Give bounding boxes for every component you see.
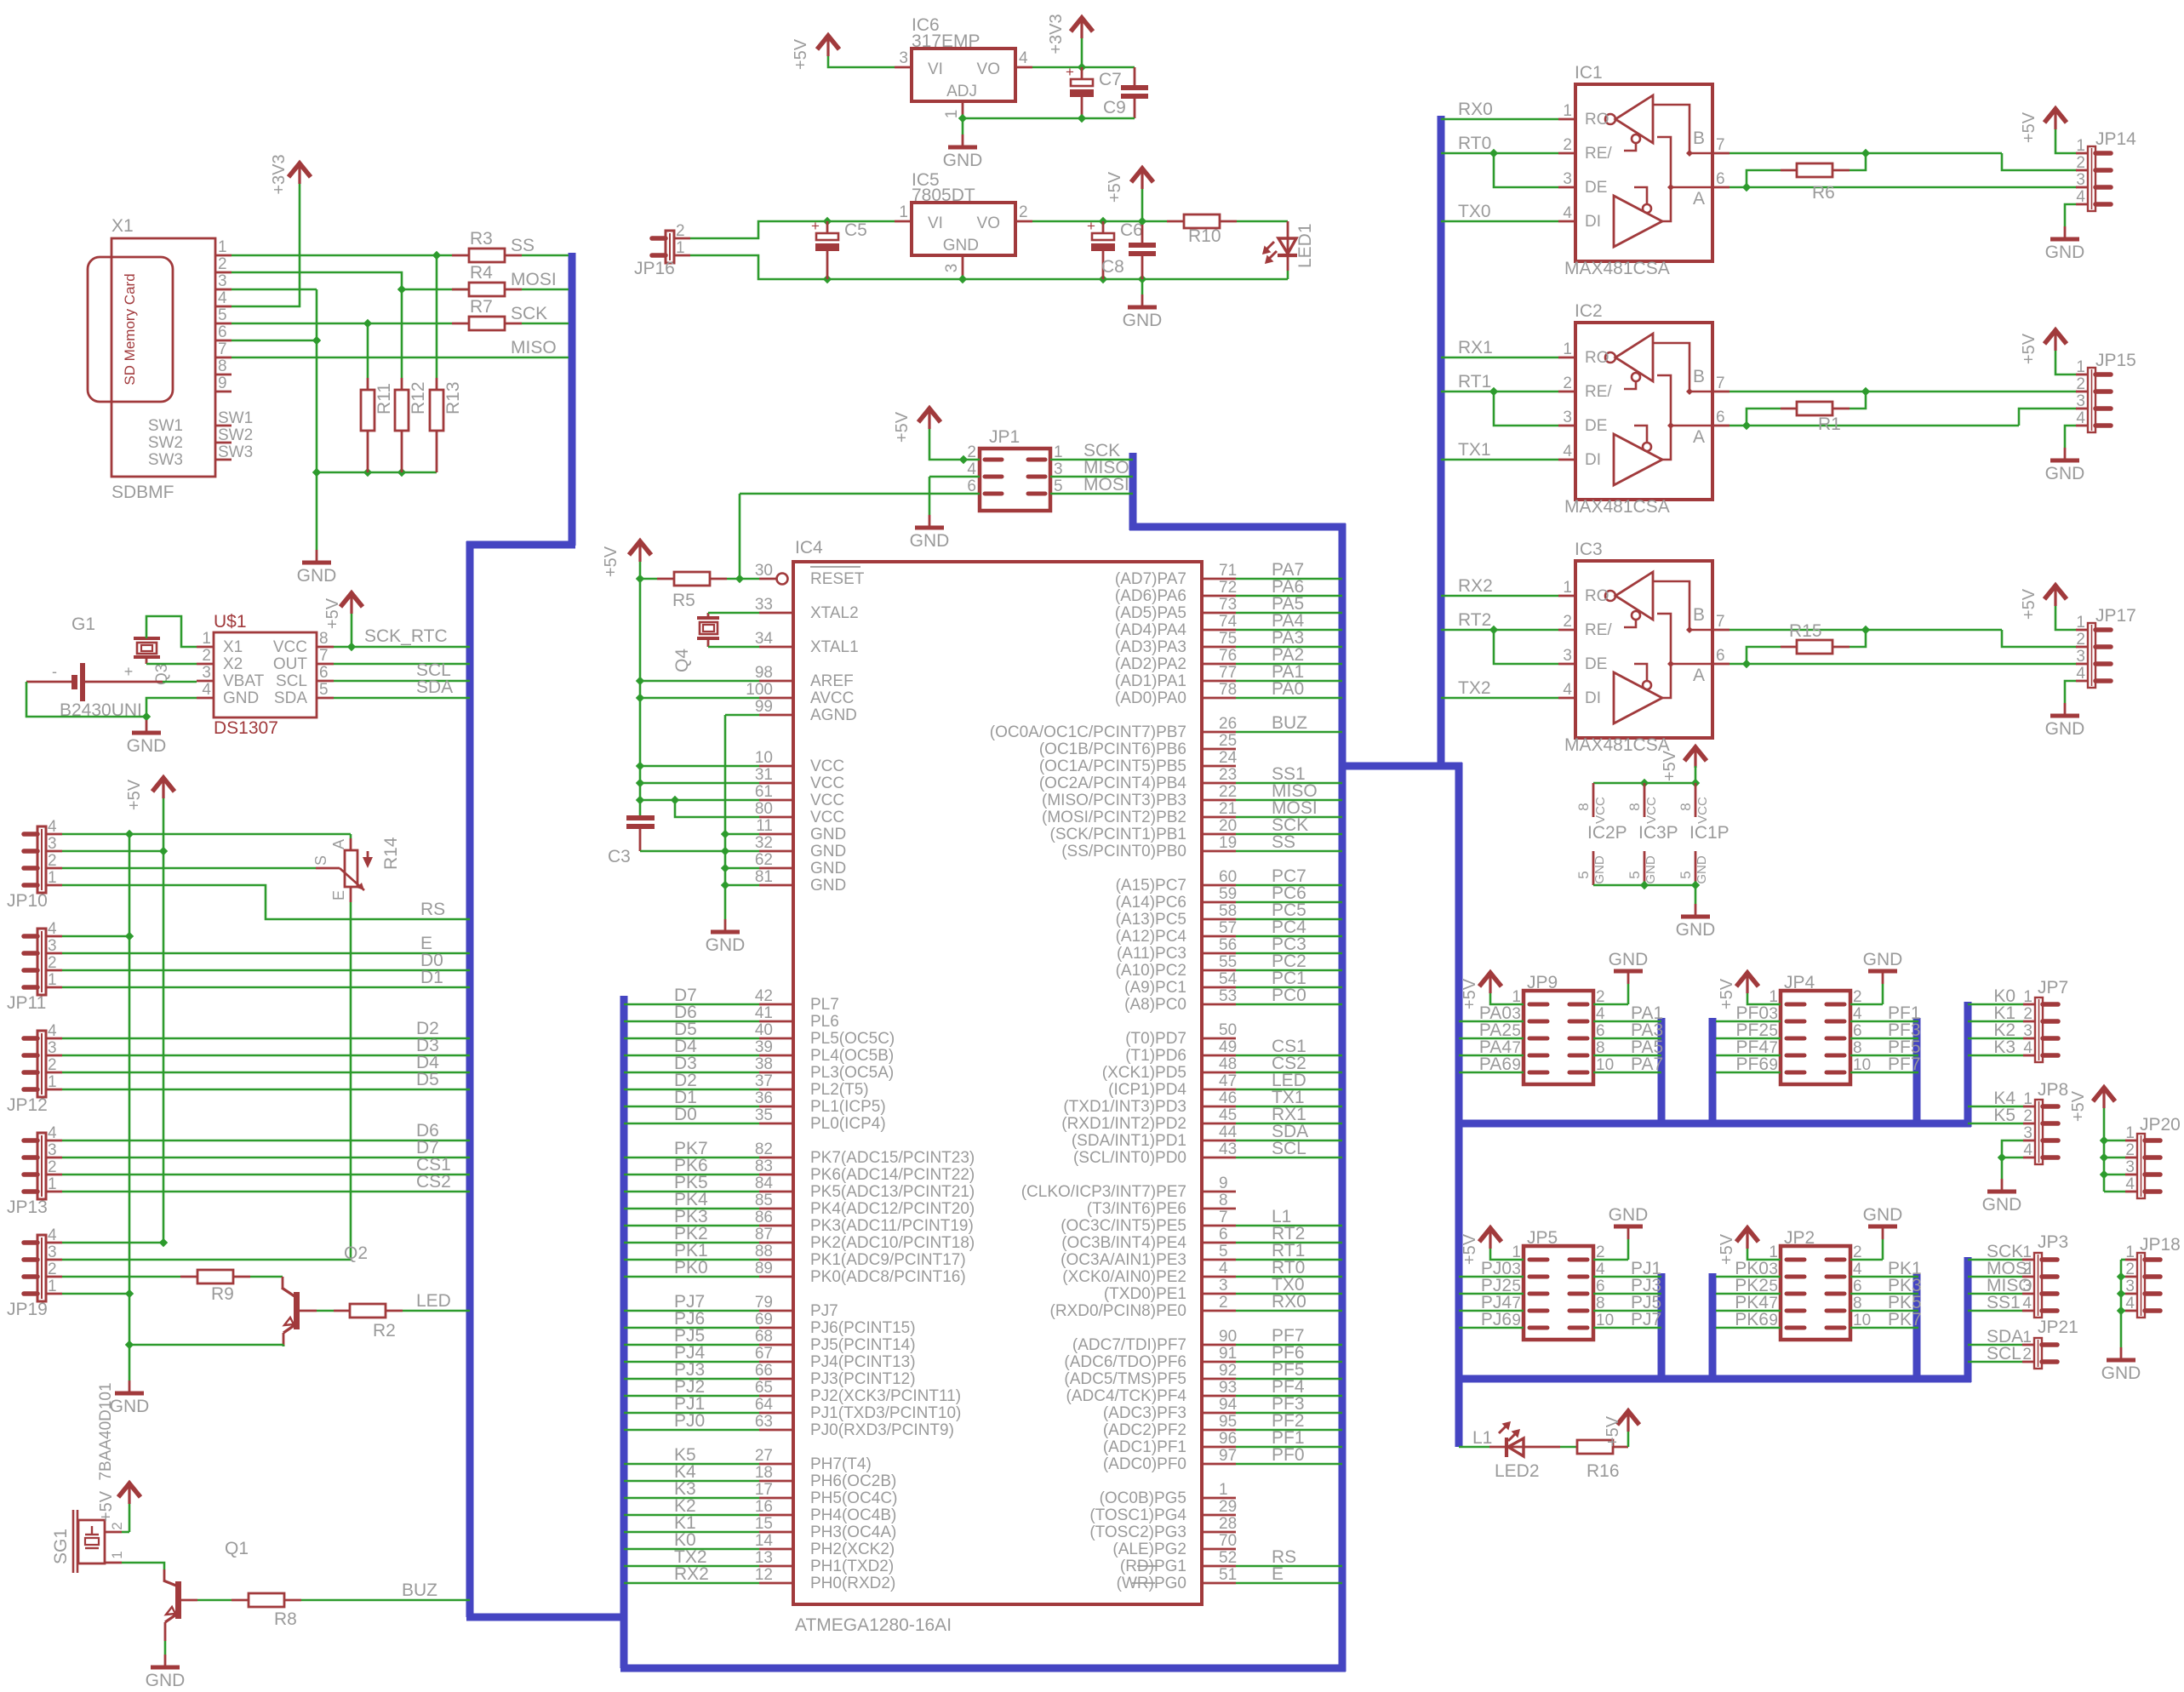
svg-text:3: 3 bbox=[48, 835, 57, 853]
wire K2 to JP7 bbox=[1968, 1037, 2023, 1040]
svg-text:7: 7 bbox=[1716, 613, 1725, 631]
wire PJ6 to bus bbox=[624, 1327, 759, 1329]
svg-text:1: 1 bbox=[899, 203, 908, 221]
svg-text:6: 6 bbox=[1716, 409, 1725, 426]
svg-text:5: 5 bbox=[1575, 871, 1592, 878]
wire PK5 to bus bbox=[624, 1191, 759, 1193]
wire battery + to VBAT bbox=[163, 681, 197, 683]
svg-text:JP20: JP20 bbox=[2140, 1115, 2181, 1135]
svg-text:SCL: SCL bbox=[276, 672, 307, 690]
svg-text:SW1: SW1 bbox=[218, 409, 253, 427]
svg-text:VCC: VCC bbox=[1644, 797, 1659, 824]
svg-text:Q1: Q1 bbox=[225, 1539, 249, 1558]
bus V3 (SD SPI bus right of resistors) bbox=[569, 253, 576, 546]
svg-text:(ADC0)PF0: (ADC0)PF0 bbox=[1103, 1455, 1186, 1473]
svg-text:23: 23 bbox=[1219, 766, 1237, 784]
svg-text:2: 2 bbox=[2125, 1141, 2135, 1159]
svg-text:A: A bbox=[330, 839, 347, 849]
wire PJ4 to bus bbox=[624, 1361, 759, 1363]
svg-text:94: 94 bbox=[1219, 1396, 1238, 1414]
wire RT0 to DE bbox=[1494, 153, 1558, 187]
svg-text:1: 1 bbox=[48, 1175, 57, 1193]
svg-text:MAX481CSA: MAX481CSA bbox=[1564, 259, 1670, 278]
svg-text:51: 51 bbox=[1219, 1566, 1237, 1584]
svg-text:GND: GND bbox=[2045, 464, 2085, 483]
svg-text:4: 4 bbox=[2022, 1295, 2032, 1312]
svg-text:VCC: VCC bbox=[1593, 797, 1608, 824]
connector JP8 bbox=[2035, 1100, 2043, 1164]
wire JP10 pin3 +5V bbox=[62, 850, 163, 853]
wire RX2 bbox=[1441, 595, 1558, 597]
svg-text:+5V: +5V bbox=[2020, 111, 2038, 143]
ground under Q1 bbox=[164, 1655, 167, 1667]
wire RT1 to DE bbox=[1494, 392, 1558, 426]
svg-text:GND: GND bbox=[1982, 1195, 2022, 1215]
resistor R5 bbox=[640, 578, 657, 580]
svg-text:LED1: LED1 bbox=[1295, 223, 1315, 268]
wire PF1 from JP4 bbox=[1850, 1020, 1918, 1023]
wire +5V to JP20 pins bbox=[2103, 1108, 2106, 1192]
wire PA1 to right bus bbox=[1202, 680, 1236, 683]
wire PC5 to right bus bbox=[1202, 918, 1236, 921]
connector JP11 bbox=[37, 929, 46, 995]
svg-text:4: 4 bbox=[2125, 1175, 2135, 1193]
wire JP18 pins to gnd bbox=[2120, 1260, 2123, 1347]
svg-text:PJ7: PJ7 bbox=[1631, 1310, 1661, 1329]
wire D5 bbox=[62, 1089, 470, 1091]
svg-text:MAX481CSA: MAX481CSA bbox=[1564, 497, 1670, 517]
svg-text:VO: VO bbox=[977, 214, 1000, 232]
wire PK4 to JP2 bbox=[1716, 1310, 1781, 1312]
connector JP19 bbox=[37, 1235, 46, 1301]
wire PK5 from JP2 bbox=[1850, 1310, 1918, 1312]
svg-text:PL0(ICP4): PL0(ICP4) bbox=[810, 1115, 886, 1133]
power +5V at JP5 bbox=[1479, 1228, 1501, 1242]
svg-text:JP8: JP8 bbox=[2038, 1080, 2068, 1100]
wire A pin of IC3 bbox=[1729, 663, 2077, 666]
svg-text:98: 98 bbox=[755, 664, 773, 682]
svg-text:3: 3 bbox=[2125, 1278, 2135, 1295]
svg-text:1: 1 bbox=[2125, 1124, 2135, 1142]
svg-text:RX2: RX2 bbox=[1458, 576, 1493, 596]
svg-text:Q4: Q4 bbox=[672, 649, 692, 672]
svg-text:SW3: SW3 bbox=[218, 443, 253, 461]
wire SCL to right bus bbox=[1202, 1157, 1236, 1159]
bus V1 (left of IC4) bbox=[620, 996, 628, 1668]
svg-text:83: 83 bbox=[755, 1158, 773, 1175]
wire IC6 ADJ / gnd link bbox=[958, 114, 967, 123]
svg-text:+: + bbox=[811, 218, 820, 234]
svg-text:(A8)PC0: (A8)PC0 bbox=[1124, 996, 1186, 1014]
svg-text:SDA: SDA bbox=[274, 689, 307, 707]
svg-text:4: 4 bbox=[1563, 443, 1572, 460]
wire SDA to right bus bbox=[1202, 1140, 1236, 1142]
wire TX2 bbox=[1441, 697, 1558, 700]
svg-text:Q2: Q2 bbox=[344, 1243, 368, 1263]
wire RT2 to right bus bbox=[1202, 1242, 1236, 1244]
wire PK6 to JP2 bbox=[1716, 1327, 1781, 1329]
svg-text:89: 89 bbox=[755, 1260, 773, 1278]
svg-text:B: B bbox=[1693, 605, 1705, 625]
power +5V at ICxP bbox=[1684, 747, 1707, 761]
svg-text:+5V: +5V bbox=[2020, 588, 2038, 620]
wire PC6 to right bus bbox=[1202, 901, 1236, 904]
RS485 transceiver IC2 MAX481CSA bbox=[1575, 323, 1712, 500]
wire SD pin3 to GND rail bbox=[232, 289, 317, 291]
svg-text:R5: R5 bbox=[672, 591, 695, 610]
svg-text:GND: GND bbox=[810, 877, 846, 895]
svg-text:+: + bbox=[1066, 64, 1074, 80]
wire PJ0 to bus bbox=[624, 1429, 759, 1432]
svg-text:22: 22 bbox=[1219, 783, 1237, 801]
svg-text:IC1: IC1 bbox=[1575, 63, 1603, 83]
wire D4 bbox=[62, 1072, 470, 1074]
svg-text:TX0: TX0 bbox=[1458, 202, 1491, 221]
resistor R13 bbox=[436, 255, 438, 378]
svg-text:(OC3B/INT4)PE4: (OC3B/INT4)PE4 bbox=[1061, 1234, 1186, 1252]
wire PJ7 to bus bbox=[624, 1310, 759, 1312]
wire +5V to JP2 pin1 bbox=[1747, 1249, 1781, 1260]
svg-text:1: 1 bbox=[2023, 988, 2032, 1006]
bus left of JP2 bbox=[1709, 1273, 1717, 1382]
connector JP20 bbox=[2137, 1134, 2145, 1198]
svg-text:1: 1 bbox=[2076, 358, 2085, 376]
svg-text:+5V: +5V bbox=[1718, 978, 1736, 1009]
svg-text:82: 82 bbox=[755, 1140, 773, 1158]
svg-text:2: 2 bbox=[218, 255, 227, 273]
resistor R15 bbox=[1850, 630, 1866, 647]
power +3V3 output bbox=[1071, 18, 1093, 31]
svg-text:SCL: SCL bbox=[1272, 1139, 1306, 1158]
wire JP16 pin1 to gnd rail bbox=[690, 255, 1288, 279]
svg-text:3: 3 bbox=[2023, 1124, 2032, 1142]
wire TX0 to right bus bbox=[1202, 1293, 1236, 1295]
svg-text:PL5(OC5C): PL5(OC5C) bbox=[810, 1030, 895, 1048]
wire SD pin6 bbox=[232, 340, 317, 342]
svg-text:JP2: JP2 bbox=[1784, 1228, 1815, 1248]
wire JP15 pin4 to gnd bbox=[2065, 426, 2076, 448]
RS485 transceiver IC3 MAX481CSA bbox=[1575, 561, 1712, 738]
svg-text:JP11: JP11 bbox=[7, 993, 46, 1013]
svg-text:GND: GND bbox=[810, 860, 846, 877]
svg-text:3: 3 bbox=[202, 664, 211, 682]
svg-text:+5V: +5V bbox=[1461, 978, 1479, 1009]
pin stub (T3/INT6)PE6 bbox=[1202, 1208, 1236, 1210]
svg-text:RT0: RT0 bbox=[1458, 134, 1491, 153]
wire R14 E down to JP19 pin3 bbox=[62, 902, 351, 1260]
svg-text:VI: VI bbox=[928, 214, 943, 232]
svg-text:59: 59 bbox=[1219, 885, 1237, 903]
svg-text:(A9)PC1: (A9)PC1 bbox=[1124, 979, 1186, 997]
svg-text:+3V3: +3V3 bbox=[270, 154, 289, 194]
resistor R3 bbox=[452, 254, 469, 257]
wire PF4 to right bus bbox=[1202, 1395, 1236, 1398]
svg-text:2: 2 bbox=[1563, 613, 1572, 631]
wire PK4 to bus bbox=[624, 1208, 759, 1210]
RTC U$1 DS1307 bbox=[214, 632, 317, 717]
svg-text:(SCL/INT0)PD0: (SCL/INT0)PD0 bbox=[1073, 1149, 1186, 1167]
svg-text:PK0: PK0 bbox=[674, 1258, 708, 1278]
svg-text:1: 1 bbox=[48, 869, 57, 887]
svg-text:26: 26 bbox=[1219, 715, 1237, 733]
wire JP19 pin1 gnd bbox=[62, 1293, 129, 1295]
svg-text:GND: GND bbox=[706, 935, 746, 955]
wire Q2 emitter to gnd rail bbox=[283, 1345, 285, 1346]
wire PJ3 from JP5 bbox=[1593, 1293, 1661, 1295]
svg-text:(TOSC2)PG3: (TOSC2)PG3 bbox=[1089, 1523, 1186, 1541]
svg-text:53: 53 bbox=[1219, 987, 1237, 1005]
svg-text:56: 56 bbox=[1219, 936, 1237, 954]
svg-text:RX2: RX2 bbox=[674, 1564, 709, 1584]
wire PK3 to bus bbox=[624, 1225, 759, 1227]
wire BUZ to right bus bbox=[1202, 731, 1236, 734]
svg-text:3: 3 bbox=[48, 1039, 57, 1057]
svg-text:DI: DI bbox=[1585, 451, 1601, 469]
wire JP9 pin2 to gnd bbox=[1593, 1003, 1628, 1006]
svg-text:99: 99 bbox=[755, 698, 773, 716]
wire JP1 pin5 MOSI bbox=[1050, 493, 1133, 495]
wire Q3 to X1 pin bbox=[146, 616, 197, 647]
svg-text:19: 19 bbox=[1219, 834, 1237, 852]
wire SCK to bus bbox=[522, 323, 569, 325]
svg-text:R8: R8 bbox=[274, 1609, 297, 1629]
svg-text:JP17: JP17 bbox=[2095, 606, 2136, 626]
wire PK2 to bus bbox=[624, 1242, 759, 1244]
svg-text:33: 33 bbox=[755, 596, 773, 614]
svg-text:13: 13 bbox=[755, 1549, 773, 1567]
wire +5V to JP14 pin1 bbox=[2055, 129, 2076, 153]
wire A pin of IC2 bbox=[1729, 425, 2019, 427]
svg-text:GND: GND bbox=[297, 566, 337, 586]
svg-text:2: 2 bbox=[2076, 154, 2085, 172]
svg-text:VCC: VCC bbox=[273, 638, 307, 656]
svg-text:11: 11 bbox=[756, 817, 773, 835]
svg-text:6: 6 bbox=[1716, 170, 1725, 188]
svg-text:5: 5 bbox=[1678, 871, 1694, 878]
svg-text:29: 29 bbox=[1219, 1498, 1237, 1516]
wire MOSI to right bus bbox=[1202, 816, 1236, 819]
bus bottom horizontal bbox=[620, 1665, 1346, 1672]
svg-text:8: 8 bbox=[1575, 803, 1592, 810]
svg-text:IC4: IC4 bbox=[795, 538, 823, 557]
svg-text:32: 32 bbox=[755, 834, 773, 852]
wire D6 to bus bbox=[624, 1020, 759, 1023]
svg-text:C8: C8 bbox=[1101, 257, 1124, 277]
svg-text:PJ2(XCK3/PCINT11): PJ2(XCK3/PCINT11) bbox=[810, 1387, 961, 1405]
svg-text:X1: X1 bbox=[111, 216, 134, 236]
svg-text:1: 1 bbox=[1219, 1481, 1228, 1499]
svg-text:4: 4 bbox=[1563, 681, 1572, 699]
svg-text:3: 3 bbox=[1563, 170, 1572, 188]
svg-text:CS2: CS2 bbox=[416, 1172, 451, 1192]
svg-text:2: 2 bbox=[48, 852, 57, 870]
svg-text:GND: GND bbox=[943, 151, 983, 170]
wire K2 to bus bbox=[624, 1514, 759, 1517]
svg-text:2: 2 bbox=[2023, 1107, 2032, 1125]
svg-text:3: 3 bbox=[2076, 171, 2085, 189]
ground under JP17 bbox=[2064, 703, 2067, 716]
svg-text:VO: VO bbox=[977, 60, 1000, 78]
svg-text:GND: GND bbox=[223, 689, 259, 707]
wire PF5 from JP4 bbox=[1850, 1055, 1918, 1057]
svg-text:D5: D5 bbox=[416, 1070, 439, 1089]
connector JP13 bbox=[37, 1133, 46, 1199]
wire D3 bbox=[62, 1055, 470, 1057]
svg-text:2: 2 bbox=[48, 1056, 57, 1074]
svg-text:97: 97 bbox=[1219, 1447, 1237, 1465]
svg-text:3: 3 bbox=[218, 272, 227, 290]
wire PA5 from JP9 bbox=[1593, 1055, 1661, 1057]
svg-text:1: 1 bbox=[2076, 614, 2085, 632]
wire VCC pin8 / SCK_RTC bbox=[351, 614, 353, 647]
wire SCK to JP3 bbox=[1968, 1259, 2022, 1261]
svg-text:96: 96 bbox=[1219, 1430, 1237, 1448]
svg-text:(TOSC1)PG4: (TOSC1)PG4 bbox=[1089, 1506, 1186, 1524]
wire PF0 to JP4 bbox=[1716, 1020, 1781, 1023]
wire MISO to JP3 bbox=[1968, 1293, 2022, 1295]
svg-text:+5V: +5V bbox=[1661, 750, 1679, 781]
power +5V at RTC bbox=[340, 593, 363, 607]
svg-text:JP10: JP10 bbox=[7, 891, 48, 911]
svg-text:(ICP1)PD4: (ICP1)PD4 bbox=[1108, 1081, 1186, 1099]
connector JP17 bbox=[2088, 623, 2095, 688]
svg-text:R11: R11 bbox=[374, 383, 394, 414]
svg-text:ATMEGA1280-16AI: ATMEGA1280-16AI bbox=[795, 1615, 952, 1635]
wire VCC pins bbox=[640, 765, 759, 768]
svg-text:62: 62 bbox=[755, 851, 773, 869]
svg-text:3: 3 bbox=[48, 937, 57, 955]
wire SDA to JP21 bbox=[1968, 1344, 2022, 1346]
wire VCC rail ICxP bbox=[1593, 782, 1695, 785]
wire CS1 bbox=[62, 1174, 470, 1176]
svg-text:38: 38 bbox=[755, 1055, 773, 1073]
svg-text:1: 1 bbox=[676, 239, 685, 257]
wire GND drop x372 bbox=[316, 289, 318, 472]
power +5V at IC6 bbox=[817, 36, 839, 49]
svg-text:D0: D0 bbox=[674, 1105, 697, 1124]
svg-text:3: 3 bbox=[2076, 392, 2085, 410]
svg-text:PA7: PA7 bbox=[1631, 1055, 1663, 1074]
pin stub (TOSC2)PG3 bbox=[1202, 1531, 1236, 1534]
svg-text:RT2: RT2 bbox=[1458, 610, 1491, 630]
svg-text:PL6: PL6 bbox=[810, 1013, 839, 1031]
wire RX0 bbox=[1441, 118, 1558, 121]
gnd rail x852 bbox=[724, 715, 727, 919]
wire C3 to GND rail bbox=[640, 850, 725, 853]
svg-text:(A15)PC7: (A15)PC7 bbox=[1116, 877, 1186, 895]
svg-text:S: S bbox=[312, 855, 329, 866]
svg-text:A: A bbox=[1693, 427, 1705, 447]
svg-text:(XCK1)PD5: (XCK1)PD5 bbox=[1102, 1064, 1186, 1082]
svg-text:A: A bbox=[1693, 189, 1705, 209]
svg-text:17: 17 bbox=[755, 1481, 773, 1499]
svg-text:(A10)PC2: (A10)PC2 bbox=[1116, 962, 1186, 980]
svg-text:PK5(ADC13/PCINT21): PK5(ADC13/PCINT21) bbox=[810, 1183, 975, 1201]
svg-text:PL1(ICP5): PL1(ICP5) bbox=[810, 1098, 886, 1116]
svg-text:(TXD0)PE1: (TXD0)PE1 bbox=[1104, 1285, 1186, 1303]
svg-text:R7: R7 bbox=[470, 297, 493, 317]
microcontroller IC4 ATMEGA1280-16AI bbox=[793, 562, 1202, 1604]
svg-text:SG1: SG1 bbox=[51, 1529, 71, 1564]
trimmer R14 bbox=[350, 834, 352, 838]
svg-text:JP18: JP18 bbox=[2140, 1235, 2181, 1255]
svg-text:1: 1 bbox=[1563, 340, 1572, 358]
wire Q1 base to R8 bbox=[197, 1599, 232, 1602]
svg-text:1: 1 bbox=[943, 110, 961, 119]
ground under IC6 bbox=[962, 134, 964, 147]
power +3V3 bbox=[289, 163, 311, 177]
svg-text:(ALE)PG2: (ALE)PG2 bbox=[1112, 1541, 1186, 1558]
svg-text:PC0: PC0 bbox=[1272, 986, 1306, 1005]
svg-text:(AD5)PA5: (AD5)PA5 bbox=[1115, 604, 1186, 622]
svg-text:+5V: +5V bbox=[125, 779, 144, 810]
svg-text:R3: R3 bbox=[470, 229, 493, 249]
wire JP10 pin1 / RS bbox=[62, 885, 470, 919]
svg-text:1: 1 bbox=[109, 1551, 125, 1558]
svg-text:2: 2 bbox=[48, 1260, 57, 1278]
svg-text:(XCK0/AIN0)PE2: (XCK0/AIN0)PE2 bbox=[1062, 1268, 1186, 1286]
svg-text:27: 27 bbox=[755, 1447, 773, 1465]
wire SDA pin5 bbox=[334, 697, 470, 700]
svg-text:+5V: +5V bbox=[1718, 1233, 1736, 1265]
svg-text:25: 25 bbox=[1219, 732, 1237, 750]
svg-text:31: 31 bbox=[755, 766, 773, 784]
svg-text:DE: DE bbox=[1585, 179, 1607, 197]
connector JP4 bbox=[1781, 991, 1850, 1084]
connector JP9 bbox=[1524, 991, 1593, 1084]
svg-text:PH0(RXD2): PH0(RXD2) bbox=[810, 1575, 895, 1592]
svg-text:(AD7)PA7: (AD7)PA7 bbox=[1115, 570, 1186, 588]
wire PF0 to right bus bbox=[1202, 1463, 1236, 1466]
svg-text:JP12: JP12 bbox=[7, 1095, 48, 1115]
svg-text:30: 30 bbox=[755, 562, 773, 580]
svg-text:92: 92 bbox=[1219, 1362, 1237, 1380]
svg-text:GND: GND bbox=[1695, 855, 1709, 884]
svg-text:SS: SS bbox=[1272, 832, 1295, 852]
wire PK1 to bus bbox=[624, 1259, 759, 1261]
wire PJ1 from JP5 bbox=[1593, 1276, 1661, 1278]
power pins IC3P bbox=[1644, 783, 1646, 817]
wire JP2 pin2 to gnd bbox=[1850, 1259, 1883, 1261]
svg-text:VCC: VCC bbox=[810, 792, 844, 809]
wire PK7 to bus bbox=[624, 1157, 759, 1159]
wire +5V to JP17 pin1 bbox=[2055, 606, 2076, 630]
svg-text:PJ4(PCINT13): PJ4(PCINT13) bbox=[810, 1353, 916, 1371]
connector JP21 bbox=[2034, 1338, 2042, 1369]
svg-text:69: 69 bbox=[755, 1311, 773, 1329]
svg-text:RE/: RE/ bbox=[1585, 383, 1612, 401]
wire RT2 to DE bbox=[1494, 630, 1558, 664]
ground under JP15 bbox=[2064, 448, 2067, 460]
ground under JP14 bbox=[2064, 226, 2067, 239]
wire PK2 to JP2 bbox=[1716, 1293, 1781, 1295]
svg-text:3: 3 bbox=[1563, 647, 1572, 665]
svg-text:PK3(ADC11/PCINT19): PK3(ADC11/PCINT19) bbox=[810, 1217, 974, 1235]
wire R5 to RESET pin bbox=[727, 578, 759, 580]
power +5V at JP2 bbox=[1736, 1228, 1758, 1242]
svg-text:JP3: JP3 bbox=[2038, 1232, 2068, 1252]
ground above JP5 bbox=[1627, 1226, 1630, 1239]
svg-text:MOSI: MOSI bbox=[511, 270, 557, 289]
svg-text:80: 80 bbox=[755, 800, 773, 818]
wire PJ5 from JP5 bbox=[1593, 1310, 1661, 1312]
wire RS to right bus bbox=[1202, 1565, 1236, 1568]
power pins IC1P bbox=[1695, 783, 1697, 817]
wire +5V to JP4 pin1 bbox=[1747, 993, 1781, 1004]
svg-text:41: 41 bbox=[755, 1004, 773, 1022]
svg-text:(T1)PD6: (T1)PD6 bbox=[1125, 1047, 1186, 1065]
wire SD pin1 / SS net bbox=[232, 254, 452, 257]
